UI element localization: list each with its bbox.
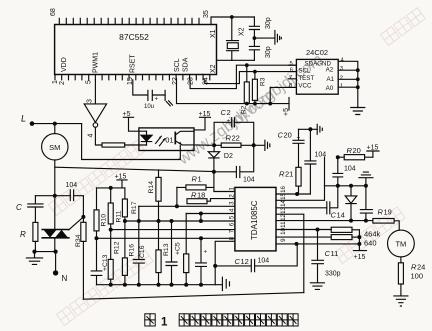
svg-text:C16: C16 <box>139 245 146 258</box>
svg-text:2: 2 <box>229 194 236 198</box>
svg-text:+C5: +C5 <box>175 242 182 255</box>
svg-text:20: 20 <box>284 131 292 140</box>
svg-text:X2: X2 <box>210 64 217 73</box>
svg-text:A0: A0 <box>326 85 334 92</box>
node line (regulator) <box>325 185 366 187</box>
wire pin13 column <box>276 214 304 292</box>
wire +15 rail <box>97 187 125 189</box>
svg-text:8: 8 <box>289 83 292 89</box>
wire pin22 to +5 rail <box>177 80 290 104</box>
svg-text:1: 1 <box>161 317 168 329</box>
capacitor C2 <box>214 108 254 145</box>
wire VCC link <box>270 87 296 103</box>
svg-text:4: 4 <box>88 134 95 138</box>
svg-text:VCC: VCC <box>298 82 312 89</box>
svg-text:R3: R3 <box>260 77 267 86</box>
svg-text:21: 21 <box>285 170 293 179</box>
wire pin2 row <box>211 198 235 200</box>
svg-text:SM: SM <box>49 143 60 152</box>
svg-text:104: 104 <box>243 177 255 184</box>
wire emitter to R22 node <box>194 144 214 146</box>
svg-text:SCL: SCL <box>298 68 311 75</box>
svg-text:A1: A1 <box>327 76 335 83</box>
resistor R12 <box>108 230 120 285</box>
svg-text:TDA1085C: TDA1085C <box>250 200 259 240</box>
svg-text:+15: +15 <box>367 145 379 152</box>
capacitor C14 <box>327 186 345 220</box>
svg-text:4: 4 <box>229 208 236 212</box>
capacitor C (snubber) <box>16 196 43 223</box>
svg-text:5: 5 <box>290 61 293 67</box>
wire pin5 row <box>125 220 235 222</box>
capacitor 10u (RSET) <box>133 80 165 110</box>
IC U4 TDA1085C <box>235 187 276 251</box>
svg-text:5: 5 <box>86 80 93 84</box>
resistor R19 <box>373 208 394 224</box>
wire pin16 row <box>276 193 310 195</box>
svg-text:22: 22 <box>232 134 240 143</box>
bus (outer bottom) <box>83 293 303 300</box>
U1 top pin stubs <box>59 18 199 24</box>
svg-text:R: R <box>20 230 26 239</box>
svg-text:3: 3 <box>340 66 343 72</box>
svg-text:10: 10 <box>280 227 287 234</box>
capacitor C6 <box>196 238 208 284</box>
svg-text:01: 01 <box>165 136 173 145</box>
svg-text:SDA: SDA <box>183 57 190 72</box>
crystal X2 <box>227 17 246 60</box>
junction crystal top <box>230 15 234 19</box>
svg-text:464k: 464k <box>364 230 381 239</box>
junction emitter node <box>212 143 216 147</box>
ground (RSET cap) <box>165 90 172 106</box>
junction snubber node <box>53 194 57 198</box>
wire pin7 row <box>97 237 235 239</box>
wire SDA: pin23 to 24C02 <box>190 65 296 88</box>
wire pin6 row <box>111 229 235 231</box>
LED (inside O1) <box>141 131 152 145</box>
ground (node line, inverted) <box>359 172 373 186</box>
svg-text:2: 2 <box>340 75 343 81</box>
resistor R34 <box>75 217 86 299</box>
MCU U1 87C552 <box>55 25 217 75</box>
svg-text:16: 16 <box>280 185 287 192</box>
svg-text:SCL: SCL <box>174 58 181 72</box>
svg-text:24: 24 <box>417 263 425 272</box>
svg-text:R13: R13 <box>163 243 170 256</box>
svg-text:10u: 10u <box>144 104 154 110</box>
svg-text:+: + <box>227 118 231 125</box>
svg-text:X1: X1 <box>210 29 217 38</box>
24C02 left stubs <box>288 65 296 87</box>
resistor R17 <box>122 188 138 221</box>
ground (24C02) <box>351 108 365 115</box>
EEPROM U2 24C02 <box>289 48 345 94</box>
svg-text:68: 68 <box>50 8 57 16</box>
junction C5 col on pin5 row <box>170 219 174 223</box>
wire resistor join column <box>358 230 360 244</box>
ground (C20 row, right) <box>317 124 322 134</box>
+15 supply (R20) <box>367 145 380 158</box>
svg-text:R17: R17 <box>131 201 138 214</box>
ground (C11) <box>310 283 324 290</box>
resistor 640 <box>331 235 376 248</box>
junction gate node <box>81 215 85 219</box>
svg-text:1: 1 <box>229 187 236 191</box>
wire triac gate <box>69 217 84 230</box>
diode D3 <box>345 186 357 221</box>
bus (inner, components bottom) <box>97 284 216 286</box>
resistor R5 (series to opto) <box>102 143 125 147</box>
wire pin12 row <box>276 220 373 222</box>
svg-text:VDD: VDD <box>61 57 68 72</box>
+5 supply (I2C) <box>283 98 290 117</box>
resistor R10 <box>94 188 108 238</box>
svg-text:104: 104 <box>258 258 270 265</box>
wire pin3 left end down <box>138 206 140 221</box>
svg-text:6: 6 <box>229 222 236 226</box>
U1 pin labels <box>50 8 217 85</box>
ground (crystal) <box>254 31 281 45</box>
resistor 464k <box>331 227 380 238</box>
svg-text:RSET: RSET <box>130 54 137 73</box>
wire resistor to LED <box>125 144 147 146</box>
wire crystal bottom to X2 pin <box>217 59 255 61</box>
wire PWM1 pin5 down <box>94 80 96 104</box>
+15 supply (opto) <box>194 111 211 130</box>
junction caps mid <box>253 36 257 40</box>
svg-text:104: 104 <box>66 182 78 189</box>
svg-text:1: 1 <box>198 175 202 184</box>
+15 supply (R bank) <box>115 174 128 188</box>
capacitor C11 330p <box>312 230 341 283</box>
svg-text:TM: TM <box>395 240 406 249</box>
node L terminal <box>21 114 34 126</box>
resistor R22 <box>214 134 254 148</box>
svg-text:C: C <box>16 203 22 212</box>
svg-text:+15: +15 <box>354 254 366 261</box>
wire SCL: pin34 to 24C02 <box>205 72 297 84</box>
wire pin3 row <box>139 205 235 207</box>
svg-text:104: 104 <box>344 166 356 173</box>
wire motor sense (SM to D2 node) <box>55 167 214 171</box>
node N terminal <box>53 252 68 283</box>
+5 supply (opto) <box>123 111 147 131</box>
wire pin4-pin5 link <box>200 214 202 222</box>
U1 bottom pin stubs <box>55 75 210 80</box>
svg-text:+C13: +C13 <box>102 254 109 271</box>
svg-text:+5: +5 <box>283 108 290 116</box>
svg-text:18: 18 <box>197 191 205 200</box>
wire pin15 row <box>276 157 325 200</box>
svg-text:+: + <box>297 135 301 142</box>
svg-text:1: 1 <box>340 84 343 90</box>
svg-text:1: 1 <box>52 80 59 84</box>
wire pin9 row <box>276 243 359 245</box>
wire snubber row <box>35 195 70 197</box>
phototransistor (inside O1) <box>175 131 194 150</box>
capacitor C5 <box>166 221 182 285</box>
resistor R21 <box>279 167 301 194</box>
capacitor 104 (D2 node) <box>214 145 255 183</box>
svg-text:11: 11 <box>331 249 339 258</box>
svg-text:D2: D2 <box>224 153 233 160</box>
ground (N row) <box>26 252 42 265</box>
wire pin14 row <box>276 207 327 209</box>
svg-text:640: 640 <box>364 239 377 248</box>
wire R1 left down to pin3 row <box>176 187 178 206</box>
svg-text:30p: 30p <box>265 46 272 58</box>
svg-text:3: 3 <box>229 201 236 205</box>
opto arrows <box>156 136 166 146</box>
svg-text:30p: 30p <box>265 17 272 29</box>
svg-text:12: 12 <box>241 257 249 266</box>
svg-text:6: 6 <box>290 67 293 73</box>
svg-text:PWM1: PWM1 <box>93 52 100 73</box>
svg-text:14: 14 <box>337 211 345 220</box>
resistor R13 <box>156 221 170 285</box>
diode D2 <box>208 145 233 172</box>
capacitor C16 <box>133 221 146 285</box>
capacitor C20 <box>278 129 305 167</box>
capacitor C13 <box>91 238 109 284</box>
wire L corner down to emitter row <box>82 124 181 160</box>
svg-text:35: 35 <box>203 10 210 18</box>
wire X1 pin35 to crystal <box>211 17 254 25</box>
junction R22 right <box>252 143 256 147</box>
wire pin10 row <box>276 236 331 238</box>
svg-text:3: 3 <box>87 99 94 103</box>
svg-text:24C02: 24C02 <box>306 48 328 57</box>
svg-text:+: + <box>204 250 208 256</box>
svg-text:87C552: 87C552 <box>119 32 149 42</box>
caption figure 1 <box>145 314 298 329</box>
24C02 right pin wires <box>338 61 358 107</box>
U4 right pin numbers <box>280 185 287 241</box>
svg-text:R14: R14 <box>148 181 155 194</box>
resistor R3 <box>252 72 266 104</box>
capacitor 30p (top) <box>249 17 272 38</box>
wire inverter out <box>95 127 102 145</box>
junction D2 node <box>212 170 216 174</box>
svg-text:104: 104 <box>315 152 327 159</box>
capacitor C15 <box>360 186 372 221</box>
wire pin8 row to C12 <box>215 241 235 266</box>
svg-text:23: 23 <box>188 77 195 85</box>
tacho TM <box>388 230 415 257</box>
junction SM top <box>53 122 57 126</box>
svg-text:20: 20 <box>353 146 361 155</box>
svg-text:R2: R2 <box>241 105 248 114</box>
resistor R2 <box>241 65 250 114</box>
svg-text:100: 100 <box>411 272 424 281</box>
wire D2 node to pin1 <box>214 172 235 192</box>
svg-text:R34: R34 <box>75 234 82 247</box>
svg-text:330p: 330p <box>325 271 341 278</box>
svg-text:7: 7 <box>289 75 292 81</box>
resistor R14 <box>148 170 161 221</box>
resistor R (snubber) <box>20 222 38 251</box>
svg-text:R11: R11 <box>116 210 123 222</box>
svg-text:L: L <box>21 114 26 124</box>
svg-text:9: 9 <box>280 238 287 242</box>
svg-text:TEST: TEST <box>298 75 314 82</box>
svg-text:R16: R16 <box>129 244 136 257</box>
wire pin4 row <box>186 213 235 215</box>
resistor R1 <box>177 175 214 190</box>
svg-text:A2: A2 <box>326 67 334 74</box>
motor SM <box>42 124 68 196</box>
wire C20 node row <box>299 128 318 130</box>
wire pin11 row <box>276 229 331 231</box>
svg-text:2: 2 <box>59 81 66 85</box>
U4 left pin numbers <box>229 187 236 241</box>
triac Q1 <box>42 196 69 252</box>
capacitor C12 104 <box>215 244 297 272</box>
svg-text:5: 5 <box>229 215 236 219</box>
svg-text:+: + <box>155 97 159 103</box>
ground (right of R22) <box>254 140 270 150</box>
capacitor 104 (pin16) <box>305 129 326 194</box>
svg-text:X2: X2 <box>239 27 246 36</box>
ground (inner bus right end) <box>215 266 229 291</box>
wire L line <box>32 123 82 125</box>
wire R19 to TM <box>394 221 399 230</box>
junctions A-pins <box>356 68 360 72</box>
resistor R20 <box>338 146 373 160</box>
op-amp inverter U3 <box>84 99 106 138</box>
resistor R11 <box>108 188 122 230</box>
svg-text:11: 11 <box>280 221 287 228</box>
resistor R18 <box>187 191 211 204</box>
resistor R15 <box>184 214 189 285</box>
wire N row <box>35 251 56 253</box>
svg-text:N: N <box>62 274 68 283</box>
svg-text:R12: R12 <box>114 241 121 254</box>
capacitor 30p (bottom) <box>249 38 272 60</box>
svg-text:22: 22 <box>172 77 179 85</box>
capacitor 104 (R20 node) <box>333 157 356 186</box>
svg-text:19: 19 <box>384 208 392 217</box>
svg-text:2: 2 <box>227 108 231 117</box>
ground (TM) <box>394 296 408 306</box>
resistor R16 <box>122 221 135 285</box>
optocoupler O1 <box>139 128 194 151</box>
resistor R24 100 <box>398 257 425 296</box>
junction C16 col on pin5 row <box>137 219 141 223</box>
svg-text:R10: R10 <box>101 214 108 227</box>
svg-text:4: 4 <box>341 57 345 63</box>
capacitor 104 (snubber gate) <box>66 182 84 217</box>
+15 supply (pin9, inverted) <box>354 244 367 261</box>
